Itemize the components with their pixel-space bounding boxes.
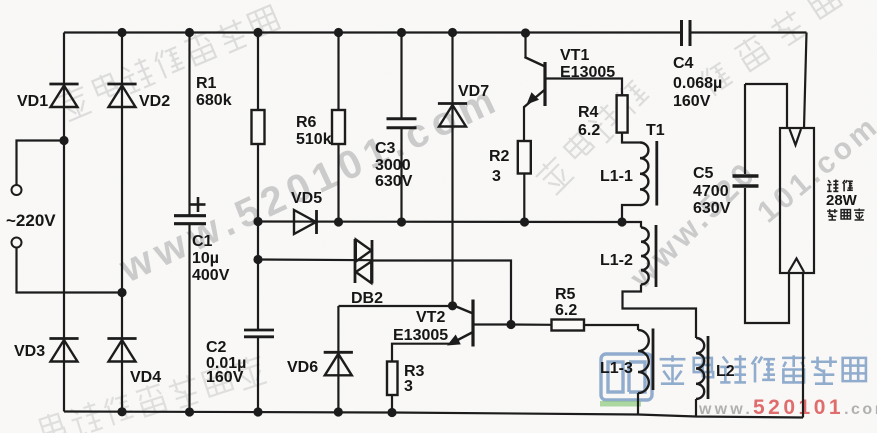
wire R6 bottom lead (337, 144, 339, 222)
svg-text:L1-2: L1-2 (600, 252, 633, 269)
svg-text:4700: 4700 (693, 183, 729, 200)
svg-text:VD5: VD5 (291, 190, 322, 207)
svg-text:510k: 510k (296, 131, 332, 148)
svg-text:160V: 160V (673, 93, 711, 110)
wire C1 bottom lead (188, 225, 190, 412)
svg-text:VD2: VD2 (139, 93, 170, 110)
node R1-DB2 junction (253, 255, 262, 264)
core T1 upper (655, 141, 658, 206)
svg-text:L1-3: L1-3 (600, 360, 633, 377)
node R3 bottom (387, 408, 396, 417)
node T1 center tap (617, 217, 626, 226)
node C1 bottom (185, 407, 194, 416)
wire lamp bottom-right pin to rail (802, 272, 804, 418)
wire DB2 line right (372, 261, 511, 325)
svg-text:R6: R6 (296, 114, 317, 131)
node R6 mid junction (334, 217, 343, 226)
node C3 top (397, 28, 406, 37)
core T1 middle (655, 225, 658, 287)
transistor VT2 (453, 305, 474, 314)
watermark CJK top-left (56, 83, 93, 122)
transistor VT1 (543, 62, 546, 106)
core T1 lower (652, 329, 655, 391)
wire VT2 base lead (474, 323, 511, 325)
wire R6 top lead (337, 33, 339, 111)
svg-text:VT2: VT2 (416, 309, 445, 326)
svg-text:VT1: VT1 (560, 47, 589, 64)
svg-text:630V: 630V (693, 200, 731, 217)
svg-text:28W: 28W (826, 192, 858, 209)
resistor R5 (552, 320, 585, 331)
diode VD2 (107, 83, 136, 86)
watermark logo green bar (600, 401, 641, 407)
wire R5 to L1-3 (584, 325, 638, 330)
svg-text:C5: C5 (693, 165, 714, 182)
terminal AC input top (12, 185, 22, 195)
wire R4 to L1-1 (622, 133, 640, 143)
node C1 top (185, 28, 194, 37)
svg-text:680k: 680k (196, 92, 232, 109)
svg-text:6.2: 6.2 (578, 122, 600, 139)
watermark CJK top-right (698, 60, 735, 98)
node VD1-VD3 AC junction (59, 136, 68, 145)
svg-text:VD3: VD3 (14, 343, 45, 360)
wire C3 top lead (400, 33, 402, 119)
wire VD7 top lead (451, 33, 453, 307)
wire DB2 line left (258, 258, 372, 261)
wire VD1/VD3 column (63, 33, 65, 412)
capacitor C4 (680, 20, 683, 46)
svg-text:C1: C1 (192, 233, 213, 250)
resistor R1 (252, 110, 265, 144)
node C2 bottom (253, 407, 262, 416)
label lamp line1 huanxing (827, 180, 838, 192)
diode VD3 (49, 337, 78, 340)
fluorescent tube outline (780, 128, 814, 273)
diac DB2 (354, 239, 357, 283)
wire AC top terminal (17, 141, 65, 186)
wire VT1 collector (524, 33, 526, 59)
diode VD1 (49, 83, 78, 86)
wire C1 top lead (188, 33, 190, 216)
resistor R2 (518, 141, 531, 174)
node R2 bottom junction (520, 217, 529, 226)
svg-text:3: 3 (492, 168, 501, 185)
svg-text:T1: T1 (646, 122, 665, 139)
node VD6 bottom (334, 407, 343, 416)
wire L1-2 top lead (622, 222, 641, 228)
svg-text:L2: L2 (716, 363, 735, 380)
resistor R3 (387, 362, 398, 396)
svg-text:R1: R1 (196, 75, 217, 92)
core L2 (707, 336, 710, 399)
inductor L1-2 winding (641, 228, 649, 285)
svg-text:VD6: VD6 (287, 359, 318, 376)
svg-text:3000: 3000 (375, 157, 411, 174)
watermark 01.com right (751, 109, 877, 229)
node VT2 collector junction (448, 301, 457, 310)
resistor R6 (332, 110, 345, 144)
wire top rail right of C4 (690, 31, 807, 33)
node VD7 top (448, 28, 457, 37)
watermark CJK bottom-left (39, 411, 66, 433)
svg-text:VD7: VD7 (458, 83, 489, 100)
node VT1 collector top (521, 28, 530, 37)
diode VD5 (294, 210, 316, 234)
svg-text:C2: C2 (206, 339, 227, 356)
wire lamp top-left pin (745, 84, 787, 129)
tube top filament (790, 129, 802, 145)
wire L2 bottom lead (695, 399, 697, 417)
svg-text:3: 3 (404, 378, 413, 395)
wire R1 to C2 (257, 144, 259, 330)
wire VT2 base to R5 (511, 323, 552, 325)
node VD2-VD4 AC junction (117, 288, 126, 297)
svg-text:C4: C4 (673, 55, 694, 72)
svg-text:10µ: 10µ (192, 250, 219, 267)
node VD2 top (117, 28, 126, 37)
diode VD4 (107, 337, 136, 340)
wire L1-1 bottom lead (622, 205, 640, 222)
wire bottom rail (64, 412, 803, 418)
tube bottom filament (789, 259, 805, 273)
wire VT2 emitter to R3 (392, 344, 450, 362)
svg-text:R4: R4 (578, 104, 599, 121)
svg-text:160V: 160V (206, 369, 244, 386)
svg-text:0.068µ: 0.068µ (673, 75, 722, 92)
wire VD2 column (121, 33, 123, 412)
node C3 mid junction (397, 217, 406, 226)
svg-text:VD4: VD4 (130, 369, 161, 386)
svg-text:C3: C3 (375, 140, 396, 157)
wire VT1 emitter to R2 (523, 107, 525, 141)
capacitor C3 (387, 117, 417, 120)
wire VD6 to VT2 collector (339, 305, 453, 307)
diode VD6 (324, 351, 353, 354)
wire R3 bottom lead (391, 395, 393, 413)
wire mid line (258, 220, 622, 223)
watermark CJK middle (533, 154, 575, 196)
wire VT1 base lead (545, 79, 622, 96)
diode VD7 (438, 102, 467, 105)
wire C5 top lead (744, 84, 746, 174)
label lamp line3 yingguangguan (827, 209, 837, 220)
svg-text:L1-1: L1-1 (600, 168, 633, 185)
wire R1 top lead (257, 33, 259, 111)
wire L1-3 bottom lead (637, 393, 639, 415)
capacitor C1 (174, 214, 206, 217)
svg-text:VD1: VD1 (17, 93, 48, 110)
svg-text:R2: R2 (489, 148, 510, 165)
watermark www.520101.com left (112, 76, 507, 291)
watermark logo blue square (601, 354, 652, 400)
capacitor C5 (733, 174, 759, 177)
watermark www bottom-middle (622, 154, 764, 296)
node R1 top (253, 28, 262, 37)
watermark blue CJK 家电维修资料网 (660, 355, 686, 383)
svg-text:E13005: E13005 (393, 327, 448, 344)
capacitor C2 (244, 329, 274, 332)
node R6 top (334, 28, 343, 37)
wire R2 bottom lead (523, 174, 525, 223)
svg-text:400V: 400V (192, 267, 230, 284)
svg-text:R5: R5 (555, 286, 576, 303)
node VD4 bottom (117, 407, 126, 416)
node VT2 base junction (506, 320, 515, 329)
wire top rail left of C4 (64, 31, 682, 33)
wire AC bottom terminal (17, 248, 123, 293)
svg-text:DB2: DB2 (351, 290, 383, 307)
svg-text:~220V: ~220V (6, 211, 56, 230)
node R1-VD5 junction (253, 217, 262, 226)
inductor L1-3 winding (638, 330, 649, 393)
wire C5 bottom lead (745, 188, 789, 323)
inductor L2 winding (696, 338, 704, 399)
label C1 polarity + (191, 203, 206, 206)
wire C3 bottom lead (400, 128, 402, 222)
resistor R4 (617, 95, 628, 132)
wire L1-2 to L2 (623, 285, 697, 339)
svg-text:630V: 630V (375, 173, 413, 190)
wire C2 bottom lead (257, 337, 259, 412)
inductor L1-1 winding (640, 143, 648, 206)
wire VD6 top lead (337, 306, 339, 412)
terminal AC input bottom (12, 238, 22, 248)
svg-text:6.2: 6.2 (555, 302, 577, 319)
